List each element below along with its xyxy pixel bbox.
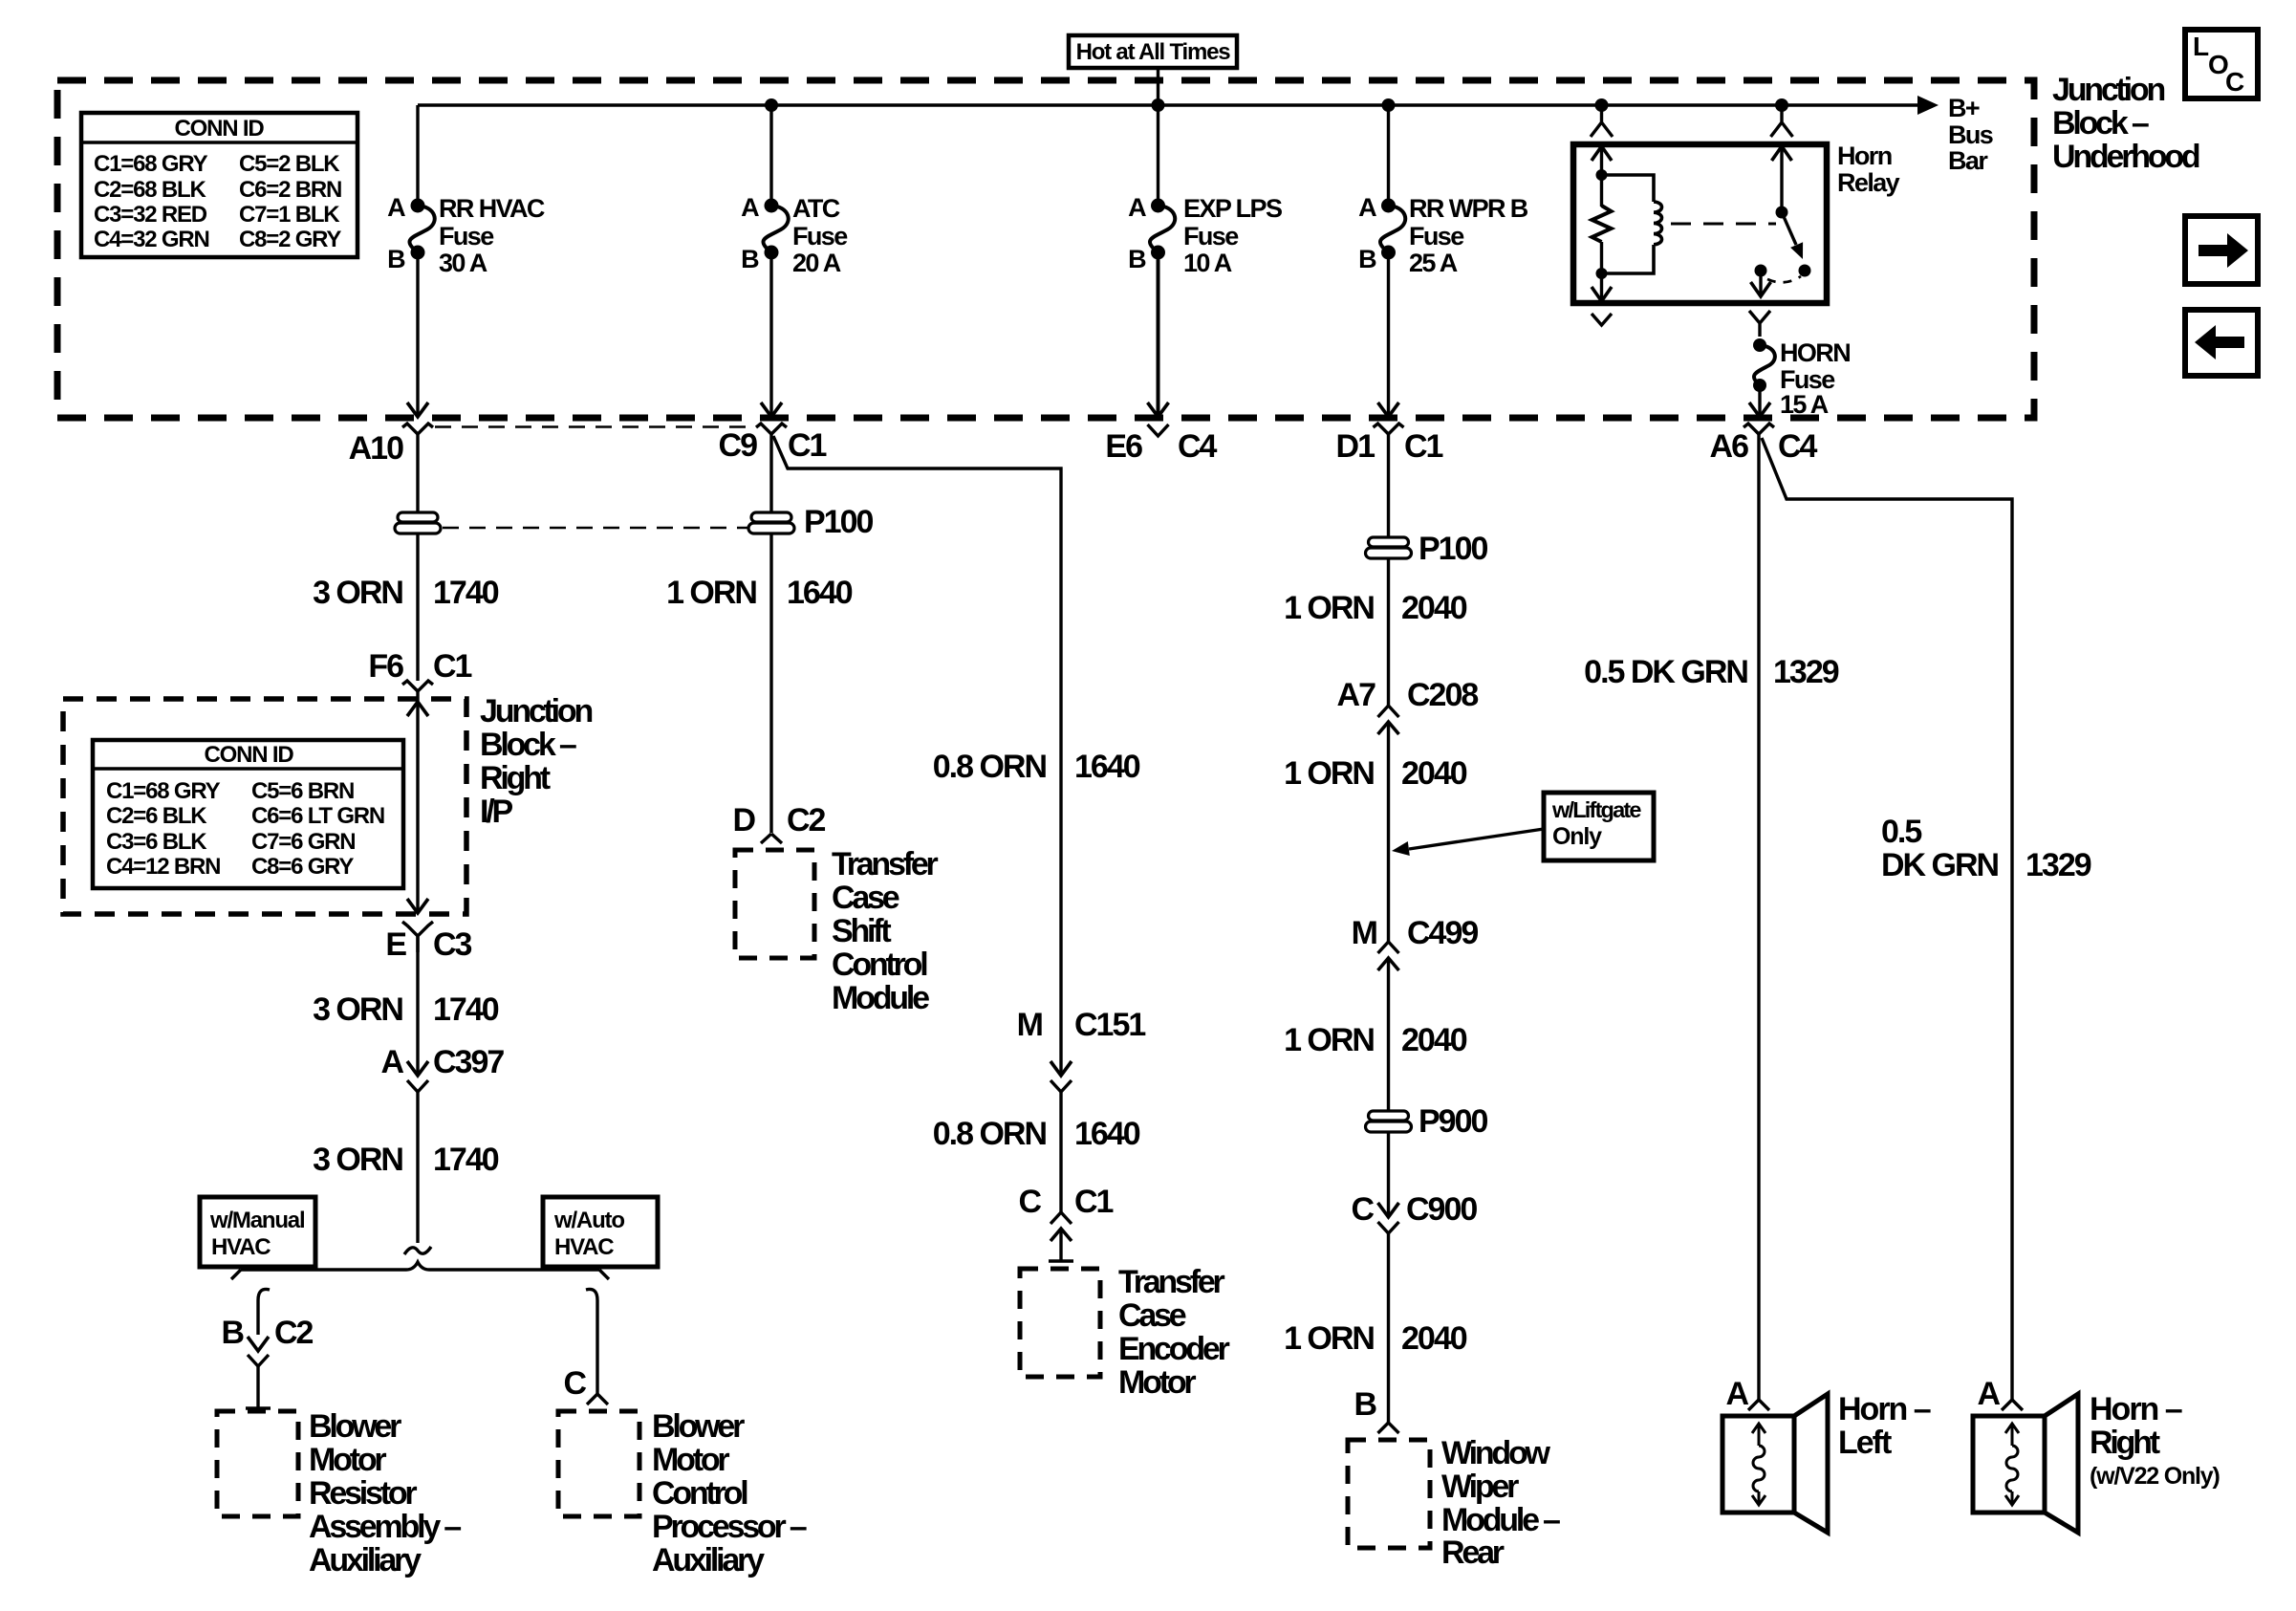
junction block underhood dashed box: [57, 80, 2034, 418]
svg-text:CONN ID: CONN ID: [175, 116, 265, 142]
grommet P100 left: [398, 512, 438, 522]
svg-text:RR HVAC: RR HVAC: [439, 194, 545, 223]
svg-text:M: M: [1352, 915, 1377, 951]
svg-text:Junction: Junction: [480, 693, 592, 729]
node bus-relay-switch: [1775, 98, 1788, 112]
svg-text:C4=32 GRN: C4=32 GRN: [94, 227, 209, 252]
left branch chevron: [248, 1355, 269, 1366]
fuse HORN pin B dot: [1753, 379, 1766, 392]
node bus-RRWPRB: [1382, 98, 1396, 112]
relay coil top node dot: [1596, 169, 1608, 181]
svg-text:EXP LPS: EXP LPS: [1183, 194, 1282, 223]
svg-text:Control: Control: [832, 947, 927, 983]
wire RR WPR B fuse feed: [1387, 105, 1390, 206]
icon arrow-right box: [2185, 216, 2258, 284]
svg-text:C2=68 BLK: C2=68 BLK: [94, 177, 206, 203]
svg-text:A10: A10: [349, 430, 403, 467]
connector E-C3: [402, 922, 433, 952]
grommet P100 right: [1369, 537, 1409, 547]
horn relay box: [1573, 144, 1827, 303]
relay switch blade: [1782, 212, 1796, 245]
wire RR WPR B output to P100: [1387, 434, 1390, 537]
wire 1 ORN 1640: [769, 533, 772, 833]
svg-text:A: A: [380, 1044, 403, 1080]
svg-text:A6: A6: [1710, 428, 1749, 465]
arrow at E6: [1148, 403, 1169, 417]
relay switch pivot dot: [1776, 207, 1788, 219]
dashed tie P100 grommets: [443, 527, 747, 530]
svg-text:Horn: Horn: [1837, 142, 1892, 170]
svg-text:C8=6 GRY: C8=6 GRY: [251, 854, 354, 880]
wire 0.5 DK GRN left horn: [1757, 434, 1760, 1400]
svg-text:C1=68 GRY: C1=68 GRY: [94, 151, 208, 177]
svg-text:B+: B+: [1948, 94, 1980, 122]
wire ATC output to P100: [769, 434, 772, 512]
svg-text:Motor: Motor: [1118, 1364, 1196, 1401]
wire 3 ORN 1740 segment 2: [416, 936, 419, 1076]
relay coil winding: [1602, 175, 1662, 273]
fuse ATC pin A dot: [765, 199, 779, 213]
svg-text:A: A: [1358, 193, 1376, 222]
svg-text:1329: 1329: [2025, 847, 2091, 883]
chevron below relay coil pin: [1592, 314, 1612, 325]
dashed tie A10-C9 connector: [435, 425, 756, 428]
svg-text:Fuse: Fuse: [792, 222, 848, 250]
svg-text:0.8 ORN: 0.8 ORN: [933, 749, 1047, 785]
svg-text:C3: C3: [433, 926, 472, 963]
svg-text:1329: 1329: [1773, 654, 1839, 690]
inline connector C397 chevron: [407, 1080, 428, 1092]
svg-text:Left: Left: [1838, 1425, 1892, 1461]
wire into transfer case encoder motor: [1059, 1229, 1062, 1261]
svg-text:Block –: Block –: [2052, 105, 2149, 142]
svg-text:B: B: [387, 245, 405, 273]
svg-text:Transfer: Transfer: [832, 846, 939, 882]
svg-text:25 A: 25 A: [1409, 249, 1458, 277]
Hot at All Times box: [1069, 35, 1237, 68]
fuse EXP LPS element: [1150, 206, 1175, 252]
wire 0.5 DK GRN right horn branch: [1762, 438, 2012, 1400]
transfer case shift control module dashed box: [735, 850, 814, 958]
svg-text:C: C: [563, 1365, 586, 1402]
svg-text:C2=6 BLK: C2=6 BLK: [106, 803, 207, 829]
down arrow inside right IP box: [407, 899, 428, 913]
svg-text:P900: P900: [1419, 1103, 1487, 1140]
svg-text:Module: Module: [832, 980, 929, 1016]
svg-text:20 A: 20 A: [792, 249, 841, 277]
fuse RR WPR B pin A dot: [1381, 199, 1396, 213]
svg-text:C3=32 RED: C3=32 RED: [94, 202, 207, 228]
connector below relay common: [1749, 311, 1770, 337]
svg-text:B: B: [1358, 245, 1376, 273]
svg-text:1 ORN: 1 ORN: [1284, 590, 1374, 626]
svg-text:Motor: Motor: [652, 1442, 729, 1478]
relay common output wire: [1759, 271, 1762, 296]
horn right bell: [2045, 1394, 2078, 1533]
connector Y below bus at relay switch pin: [1771, 105, 1793, 137]
fuse HORN element: [1754, 345, 1775, 385]
arrow at C9: [761, 403, 782, 417]
fuse RR WPR B element: [1380, 206, 1405, 252]
svg-text:HORN: HORN: [1780, 338, 1850, 367]
wire HORN fuse output: [1758, 385, 1761, 417]
svg-text:C4=12 BRN: C4=12 BRN: [106, 854, 220, 880]
svg-text:10 A: 10 A: [1183, 249, 1232, 277]
connector B into wiper module: [1378, 1423, 1399, 1433]
svg-text:Fuse: Fuse: [439, 222, 494, 250]
svg-text:0.5 DK GRN: 0.5 DK GRN: [1584, 654, 1747, 690]
wire from Hot at All Times to bus: [1157, 68, 1159, 105]
connector A10 female: [402, 424, 433, 434]
T stub into encoder motor box: [1049, 1259, 1073, 1262]
svg-text:C1=68 GRY: C1=68 GRY: [106, 778, 221, 804]
relay actuator dashed link: [1671, 223, 1776, 226]
node bus-ATC: [765, 98, 778, 112]
svg-text:Control: Control: [652, 1475, 747, 1512]
icon arrow-left box: [2185, 310, 2258, 376]
connector A left horn: [1748, 1400, 1769, 1410]
svg-text:Horn –: Horn –: [1838, 1391, 1931, 1427]
inline connector C151 chevron: [1051, 1080, 1072, 1092]
svg-text:A: A: [1977, 1376, 2000, 1412]
connector A6-C4 female: [1744, 424, 1774, 434]
fuse ATC pin B dot: [765, 246, 779, 260]
relay coil pin down arrow: [1592, 287, 1612, 301]
relay common output arrow: [1751, 282, 1771, 296]
svg-text:C2: C2: [787, 802, 826, 838]
svg-text:1 ORN: 1 ORN: [1284, 1022, 1374, 1058]
connector D1-C1 female: [1374, 424, 1404, 434]
wire 0.8 ORN 1640 lower: [1059, 1092, 1062, 1212]
inline connector C499 arrow up: [1378, 958, 1399, 970]
chevron below E6 arrow: [1148, 425, 1169, 436]
fuse RR HVAC pin A dot: [411, 199, 425, 213]
svg-text:C1: C1: [1404, 428, 1443, 465]
svg-text:w/Manual: w/Manual: [209, 1208, 304, 1233]
svg-text:P100: P100: [1419, 531, 1487, 567]
svg-text:I/P: I/P: [480, 794, 512, 830]
left branch arrow: [248, 1337, 269, 1351]
relay coil bottom node dot: [1596, 268, 1608, 279]
svg-text:C1: C1: [1074, 1184, 1114, 1220]
CONN ID table 1 box: [81, 113, 357, 257]
svg-text:3 ORN: 3 ORN: [313, 991, 402, 1028]
svg-text:30 A: 30 A: [439, 249, 487, 277]
inline connector C151 arrow: [1051, 1061, 1072, 1076]
fuse EXP LPS pin B dot: [1151, 246, 1165, 260]
svg-text:C151: C151: [1074, 1007, 1145, 1043]
relay coil pin wire: [1600, 146, 1603, 207]
transfer case encoder motor dashed box: [1020, 1269, 1100, 1377]
svg-text:D1: D1: [1336, 428, 1375, 465]
B+ bus bar wire: [418, 103, 1921, 106]
horn right coil element: [2005, 1424, 2019, 1505]
svg-text:Wiper: Wiper: [1441, 1469, 1519, 1505]
CONN ID table 2 header line: [93, 767, 403, 770]
svg-text:ATC: ATC: [792, 194, 840, 223]
inline connector C1 chevron up: [1051, 1212, 1072, 1224]
fuse RR WPR B pin B dot: [1381, 246, 1396, 260]
connector F6-C1: [402, 681, 433, 691]
relay common dot: [1755, 265, 1767, 277]
svg-text:Right: Right: [480, 760, 551, 796]
svg-text:3 ORN: 3 ORN: [313, 1142, 402, 1178]
CONN ID table 1 header line: [81, 141, 357, 143]
grommet P100 mid: [751, 512, 791, 522]
svg-text:1640: 1640: [787, 575, 853, 611]
svg-text:0.5: 0.5: [1881, 814, 1921, 850]
svg-text:C4: C4: [1778, 428, 1818, 465]
svg-text:Block –: Block –: [480, 727, 576, 763]
svg-text:Hot at All Times: Hot at All Times: [1076, 39, 1231, 65]
svg-text:Module –: Module –: [1441, 1502, 1560, 1538]
fuse HORN pin A dot: [1753, 338, 1766, 352]
svg-text:1 ORN: 1 ORN: [666, 575, 756, 611]
connector Y below bus at relay coil pin: [1591, 105, 1613, 137]
horn left coil element: [1752, 1424, 1765, 1505]
svg-text:2040: 2040: [1401, 755, 1467, 792]
w/Liftgate Only box: [1544, 793, 1654, 860]
blower motor resistor dashed box: [217, 1411, 298, 1516]
grommet P900: [1369, 1111, 1409, 1121]
svg-text:Relay: Relay: [1837, 168, 1900, 197]
wire 1 ORN 2040 s3: [1387, 958, 1390, 1111]
wire 3 ORN 1740 segment 3: [416, 1092, 419, 1243]
CONN ID table 2 box: [93, 740, 403, 888]
svg-text:Shift: Shift: [832, 913, 891, 949]
inline connector C1 arrow up: [1051, 1229, 1072, 1241]
svg-text:Bus: Bus: [1948, 120, 1993, 149]
svg-text:A: A: [1725, 1376, 1748, 1412]
svg-text:0.8 ORN: 0.8 ORN: [933, 1116, 1047, 1152]
svg-text:C1: C1: [788, 427, 827, 464]
inline connector C900 arrow: [1378, 1203, 1399, 1217]
icon arrow-left glyph: [2195, 325, 2244, 359]
svg-text:Processor –: Processor –: [652, 1509, 807, 1545]
blower motor control processor dashed box: [558, 1411, 639, 1516]
svg-text:L: L: [2193, 32, 2209, 61]
svg-text:C: C: [1018, 1184, 1041, 1220]
svg-text:15 A: 15 A: [1780, 390, 1829, 419]
svg-text:Window: Window: [1441, 1435, 1551, 1471]
svg-text:Case: Case: [832, 880, 899, 916]
svg-text:Fuse: Fuse: [1409, 222, 1464, 250]
relay travel dashed arc: [1767, 276, 1801, 282]
left branch hook: [258, 1289, 270, 1335]
svg-text:Horn –: Horn –: [2090, 1391, 2182, 1427]
wire RR HVAC fuse output: [416, 252, 419, 417]
svg-text:Blower: Blower: [652, 1408, 745, 1445]
w/Liftgate arrow: [1409, 829, 1544, 849]
wire to C900: [1387, 1132, 1390, 1217]
connector D-C2 male: [761, 834, 782, 843]
node bus-EXPLPS: [1152, 98, 1165, 112]
svg-text:A: A: [1128, 193, 1146, 222]
svg-text:C1: C1: [433, 648, 472, 685]
wire C1 branch diagonal: [773, 436, 1061, 1076]
svg-text:E6: E6: [1105, 428, 1142, 465]
svg-text:A7: A7: [1337, 677, 1376, 713]
svg-text:1740: 1740: [433, 1142, 499, 1178]
fuse EXP LPS pin A dot: [1151, 199, 1165, 213]
svg-text:2040: 2040: [1401, 1022, 1467, 1058]
wire ATC fuse feed: [769, 105, 772, 206]
horn left box: [1722, 1416, 1794, 1513]
svg-text:1740: 1740: [433, 575, 499, 611]
svg-text:C5=6 BRN: C5=6 BRN: [251, 778, 354, 804]
svg-text:C: C: [1351, 1191, 1374, 1228]
svg-text:Fuse: Fuse: [1183, 222, 1239, 250]
svg-text:Junction: Junction: [2052, 72, 2164, 108]
svg-text:3 ORN: 3 ORN: [313, 575, 402, 611]
node bus-relay-coil: [1595, 98, 1609, 112]
right branch hook: [586, 1289, 597, 1394]
up arrow inside right IP box: [407, 702, 428, 716]
bus arrow head B+: [1917, 96, 1939, 115]
arrow at D1: [1378, 403, 1399, 417]
svg-text:CONN ID: CONN ID: [205, 742, 294, 768]
svg-text:B: B: [1354, 1386, 1376, 1423]
horn left bell: [1794, 1394, 1828, 1533]
LOC icon box: [2185, 30, 2258, 98]
svg-text:C7=6 GRN: C7=6 GRN: [251, 829, 355, 855]
w/Manual HVAC box: [200, 1197, 315, 1267]
relay switch blade arrowhead: [1790, 242, 1803, 259]
wire through junction block right IP: [416, 691, 419, 913]
icon arrow-right glyph: [2199, 233, 2248, 268]
splice break squiggle: [404, 1247, 431, 1254]
svg-text:Right: Right: [2090, 1425, 2160, 1461]
wire RR HVAC fuse feed: [416, 105, 419, 206]
svg-text:Case: Case: [1118, 1297, 1186, 1334]
svg-text:C9: C9: [719, 427, 758, 464]
svg-text:F6: F6: [368, 648, 403, 685]
svg-text:Auxiliary: Auxiliary: [309, 1542, 422, 1578]
svg-text:1640: 1640: [1074, 749, 1140, 785]
wire EXP LPS fuse feed: [1157, 105, 1159, 206]
wire 1 ORN 2040 s2: [1387, 722, 1390, 942]
arrow at A6: [1749, 403, 1770, 417]
wire RR WPR B fuse output: [1387, 252, 1390, 417]
svg-text:D: D: [732, 802, 755, 838]
wire 1 ORN 2040 s4: [1387, 1233, 1390, 1423]
svg-text:Only: Only: [1552, 823, 1602, 850]
wire A10 to P100: [416, 434, 419, 512]
svg-text:Assembly –: Assembly –: [309, 1509, 461, 1545]
svg-text:DK GRN: DK GRN: [1881, 847, 1999, 883]
svg-text:C499: C499: [1407, 915, 1478, 951]
fuse RR HVAC pin B dot: [411, 246, 425, 260]
wire ATC fuse output: [769, 252, 772, 417]
svg-text:Auxiliary: Auxiliary: [652, 1542, 765, 1578]
inline connector C208 chevron up: [1378, 706, 1399, 717]
svg-text:w/Liftgate: w/Liftgate: [1551, 797, 1641, 822]
svg-text:C5=2 BLK: C5=2 BLK: [239, 151, 340, 177]
relay switch input wire: [1780, 146, 1783, 212]
svg-text:Underhood: Underhood: [2052, 139, 2199, 175]
svg-text:A: A: [387, 193, 405, 222]
svg-text:A: A: [741, 193, 759, 222]
fuse RR HVAC element: [409, 206, 434, 252]
relay coil pin up arrow: [1592, 146, 1612, 161]
window wiper module dashed box: [1348, 1440, 1430, 1548]
inline connector C900 chevron: [1378, 1222, 1399, 1233]
svg-text:C3=6 BLK: C3=6 BLK: [106, 829, 207, 855]
svg-text:2040: 2040: [1401, 590, 1467, 626]
svg-text:Rear: Rear: [1441, 1535, 1505, 1571]
svg-text:C4: C4: [1178, 428, 1218, 465]
svg-text:Transfer: Transfer: [1118, 1264, 1225, 1300]
svg-text:Blower: Blower: [309, 1408, 401, 1445]
wire left branch to blower resistor: [256, 1366, 259, 1408]
svg-text:C397: C397: [433, 1044, 504, 1080]
svg-text:HVAC: HVAC: [211, 1234, 271, 1260]
relay NO contact dot: [1799, 265, 1811, 277]
svg-text:C900: C900: [1406, 1191, 1477, 1228]
relay switch input up arrow: [1772, 146, 1792, 161]
horn right box: [1973, 1416, 2045, 1513]
svg-text:Motor: Motor: [309, 1442, 386, 1478]
svg-text:C7=1 BLK: C7=1 BLK: [239, 202, 340, 228]
svg-text:B: B: [1128, 245, 1146, 273]
svg-text:Bar: Bar: [1948, 146, 1988, 175]
svg-text:1 ORN: 1 ORN: [1284, 1320, 1374, 1357]
inline connector C397 arrow: [407, 1061, 428, 1076]
T stub into blower resistor box: [246, 1406, 271, 1409]
svg-text:B: B: [221, 1315, 244, 1351]
connector C into blower processor: [587, 1394, 608, 1404]
svg-text:M: M: [1017, 1007, 1043, 1043]
svg-text:1740: 1740: [433, 991, 499, 1028]
svg-text:2040: 2040: [1401, 1320, 1467, 1357]
svg-text:C8=2 GRY: C8=2 GRY: [239, 227, 341, 252]
svg-text:C6=6 LT GRN: C6=6 LT GRN: [251, 803, 384, 829]
resistor in relay: [1592, 206, 1612, 242]
svg-text:C: C: [2225, 67, 2244, 97]
connector A right horn: [2002, 1400, 2023, 1410]
splice distribution bar: [231, 1262, 609, 1279]
svg-text:E: E: [385, 926, 406, 963]
svg-text:w/Auto: w/Auto: [553, 1208, 624, 1233]
svg-text:RR WPR B: RR WPR B: [1409, 194, 1528, 223]
inline connector C499 chevron up: [1378, 942, 1399, 953]
svg-text:Resistor: Resistor: [309, 1475, 417, 1512]
svg-text:C208: C208: [1407, 677, 1478, 713]
wire 1 ORN 2040 s1: [1387, 558, 1390, 706]
wire 3 ORN 1740 segment 1: [416, 533, 419, 681]
svg-text:(w/V22 Only): (w/V22 Only): [2090, 1463, 2220, 1490]
svg-text:C2: C2: [274, 1315, 314, 1351]
svg-text:HVAC: HVAC: [554, 1234, 614, 1260]
arrow at A10: [407, 403, 428, 417]
svg-text:B: B: [741, 245, 759, 273]
w/Auto HVAC box: [543, 1197, 658, 1267]
svg-text:C6=2 BRN: C6=2 BRN: [239, 177, 341, 203]
wire EXP LPS fuse output: [1157, 252, 1160, 417]
connector C9-C1 female: [756, 424, 787, 434]
svg-text:Encoder: Encoder: [1118, 1331, 1230, 1367]
fuse ATC element: [763, 206, 788, 252]
inline connector C208 arrow up: [1378, 722, 1399, 734]
svg-text:P100: P100: [804, 504, 873, 540]
junction block right IP dashed box: [63, 699, 466, 914]
svg-text:1 ORN: 1 ORN: [1284, 755, 1374, 792]
svg-text:1640: 1640: [1074, 1116, 1140, 1152]
